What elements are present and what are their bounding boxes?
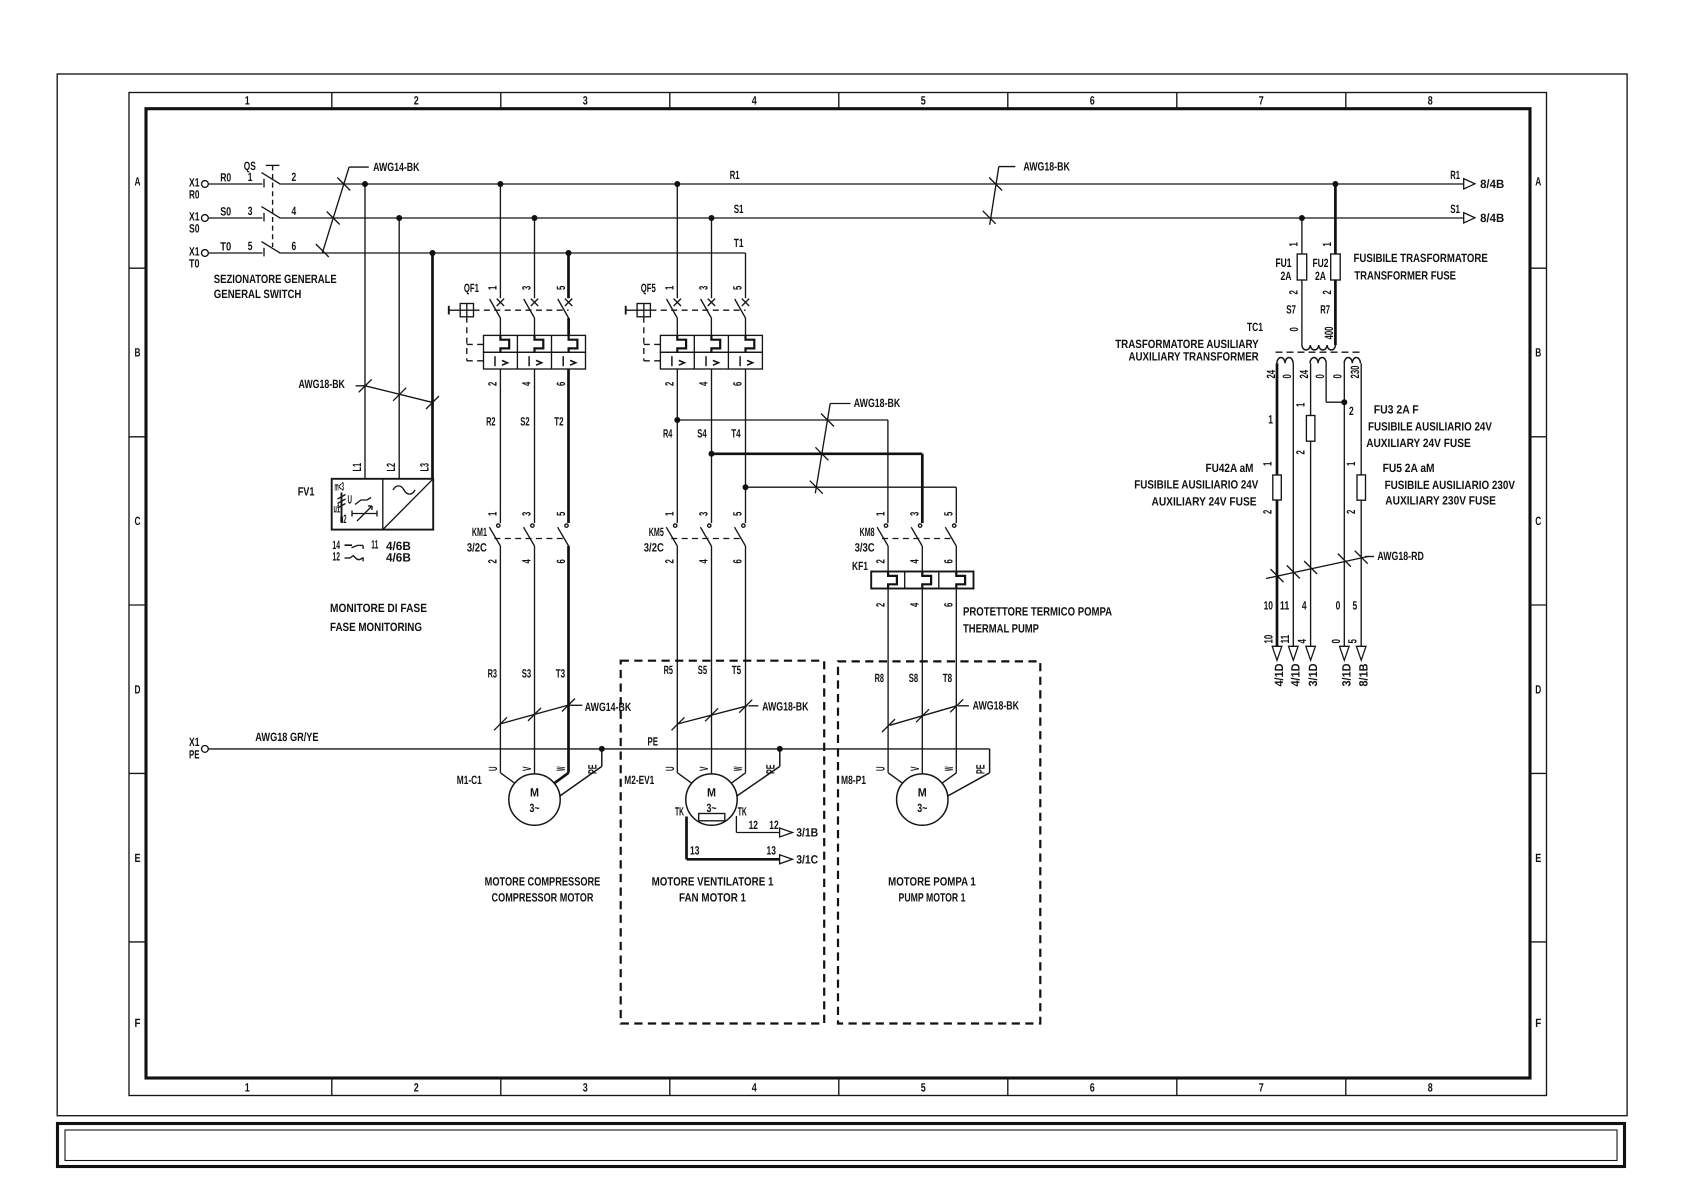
svg-text:4: 4 bbox=[520, 559, 534, 564]
svg-text:W: W bbox=[731, 766, 745, 771]
svg-text:E: E bbox=[135, 851, 141, 865]
column tick dividers bbox=[331, 93, 333, 109]
svg-text:3: 3 bbox=[583, 94, 588, 108]
svg-text:AWG18-BK: AWG18-BK bbox=[854, 396, 901, 410]
svg-text:THERMAL PUMP: THERMAL PUMP bbox=[963, 622, 1039, 636]
svg-text:R4: R4 bbox=[663, 427, 673, 441]
svg-text:QF5: QF5 bbox=[641, 281, 656, 295]
svg-text:AWG18-BK: AWG18-BK bbox=[762, 700, 809, 714]
svg-text:8/4B: 8/4B bbox=[1480, 177, 1504, 191]
QS linkage bar bbox=[266, 164, 280, 166]
svg-text:FAN MOTOR 1: FAN MOTOR 1 bbox=[679, 891, 746, 905]
wire 24V-2 (4) through FU3 bbox=[1310, 363, 1312, 415]
svg-text:2A: 2A bbox=[1315, 269, 1326, 283]
node L3 tap bbox=[430, 250, 436, 256]
svg-text:T3: T3 bbox=[556, 667, 566, 681]
svg-text:3~: 3~ bbox=[917, 801, 927, 815]
svg-text:B: B bbox=[135, 346, 141, 360]
svg-text:D: D bbox=[1535, 682, 1541, 696]
svg-text:S5: S5 bbox=[698, 663, 708, 677]
thermal element bbox=[746, 335, 755, 352]
svg-text:1: 1 bbox=[1261, 461, 1275, 466]
svg-text:2: 2 bbox=[292, 170, 297, 184]
svg-text:2: 2 bbox=[1349, 404, 1354, 418]
svg-text:S0: S0 bbox=[220, 204, 231, 218]
svg-text:L3: L3 bbox=[418, 463, 432, 472]
svg-text:12: 12 bbox=[332, 550, 340, 564]
svg-text:8: 8 bbox=[1428, 94, 1433, 108]
wire S1 to FU1 bbox=[1301, 218, 1303, 254]
node PE M1 bbox=[599, 746, 605, 752]
KM8 contact 3/4 bbox=[918, 524, 921, 527]
svg-text:F: F bbox=[1535, 1016, 1541, 1030]
wire bus R1 bbox=[279, 183, 1463, 185]
svg-text:AWG18-BK: AWG18-BK bbox=[973, 698, 1020, 712]
wire 0-1 (11) bbox=[1292, 363, 1294, 646]
terminal X1 R0 bbox=[202, 181, 209, 188]
svg-text:T1: T1 bbox=[734, 236, 744, 250]
svg-text:AWG18 GR/YE: AWG18 GR/YE bbox=[255, 730, 318, 744]
svg-text:1: 1 bbox=[663, 285, 677, 290]
KM5 contact 5/6 bbox=[742, 524, 745, 527]
svg-text:R1: R1 bbox=[1450, 168, 1460, 182]
node S4 branch bbox=[709, 451, 715, 457]
svg-text:V: V bbox=[697, 767, 711, 772]
thermal element bbox=[500, 335, 509, 352]
svg-text:8: 8 bbox=[1428, 1081, 1433, 1095]
svg-text:A: A bbox=[135, 174, 141, 188]
svg-text:4: 4 bbox=[752, 94, 757, 108]
svg-text:M8-P1: M8-P1 bbox=[841, 773, 866, 787]
svg-text:4: 4 bbox=[697, 559, 711, 564]
svg-text:PUMP MOTOR 1: PUMP MOTOR 1 bbox=[899, 891, 966, 905]
wire S3 bbox=[534, 546, 536, 774]
svg-text:4: 4 bbox=[908, 602, 922, 607]
svg-text:PE: PE bbox=[973, 765, 987, 775]
svg-text:S3: S3 bbox=[522, 667, 532, 681]
wire PE bus bbox=[208, 748, 989, 750]
svg-text:SEZIONATORE GENERALE: SEZIONATORE GENERALE bbox=[214, 272, 337, 286]
svg-text:V: V bbox=[908, 767, 922, 772]
KM1 contact 3/4 bbox=[531, 524, 534, 527]
PE connection bbox=[989, 749, 991, 773]
svg-text:0: 0 bbox=[1329, 639, 1343, 644]
svg-text:3~: 3~ bbox=[530, 801, 540, 815]
wire S5 bbox=[711, 546, 713, 774]
enclosure fan motor dashed box bbox=[621, 661, 825, 1024]
svg-text:5: 5 bbox=[1353, 599, 1358, 613]
svg-text:T8: T8 bbox=[943, 671, 953, 685]
KM8 contact 5/6 bbox=[953, 524, 956, 527]
svg-text:FU2: FU2 bbox=[1313, 256, 1329, 270]
svg-text:V: V bbox=[520, 767, 534, 772]
magnetic element bbox=[494, 356, 496, 366]
wire T3 bold bbox=[567, 546, 570, 773]
svg-text:FU5 2A aM: FU5 2A aM bbox=[1383, 461, 1435, 475]
cable AWG18-BK pump bbox=[890, 706, 957, 726]
svg-text:U: U bbox=[663, 767, 677, 772]
svg-text:2: 2 bbox=[1294, 450, 1308, 455]
svg-text:2: 2 bbox=[486, 381, 500, 386]
wires KM8 to KF1 bbox=[887, 546, 889, 572]
svg-text:6: 6 bbox=[292, 239, 297, 253]
thermal element bbox=[569, 335, 578, 352]
svg-text:3/1D: 3/1D bbox=[1340, 663, 1354, 686]
svg-text:8/1B: 8/1B bbox=[1356, 663, 1370, 686]
svg-text:FU3 2A F: FU3 2A F bbox=[1374, 402, 1419, 416]
svg-text:4: 4 bbox=[1302, 599, 1307, 613]
node L1 tap bbox=[362, 181, 368, 187]
svg-text:2: 2 bbox=[486, 559, 500, 564]
svg-text:1: 1 bbox=[486, 511, 500, 516]
wire 12 to 3/1B bbox=[735, 816, 737, 833]
fuse FU4 bbox=[1273, 475, 1282, 500]
fuse FU3 bbox=[1306, 416, 1315, 442]
svg-text:1: 1 bbox=[1268, 412, 1273, 426]
svg-text:FU42A aM: FU42A aM bbox=[1206, 461, 1254, 475]
svg-text:E: E bbox=[1535, 851, 1541, 865]
svg-text:TK: TK bbox=[675, 805, 684, 819]
svg-text:6: 6 bbox=[731, 381, 745, 386]
svg-text:6: 6 bbox=[942, 559, 956, 564]
motor M1-C1 bbox=[509, 774, 560, 825]
svg-text:A: A bbox=[1535, 174, 1541, 188]
svg-text:1: 1 bbox=[663, 511, 677, 516]
svg-text:m<3: m<3 bbox=[335, 480, 345, 494]
magnetic element bbox=[671, 356, 673, 366]
svg-text:5: 5 bbox=[731, 285, 745, 290]
svg-text:W: W bbox=[942, 766, 956, 771]
svg-text:5: 5 bbox=[921, 1081, 926, 1095]
wire S4 bold bbox=[711, 369, 713, 454]
linkage dashed bbox=[650, 309, 745, 311]
svg-text:C: C bbox=[135, 514, 141, 528]
svg-text:10: 10 bbox=[1262, 634, 1276, 643]
svg-text:L2: L2 bbox=[384, 463, 398, 472]
svg-text:2: 2 bbox=[873, 559, 887, 564]
thermal element bbox=[677, 335, 686, 352]
svg-text:PROTETTORE TERMICO POMPA: PROTETTORE TERMICO POMPA bbox=[963, 605, 1112, 619]
wire S1 to QF5 bbox=[711, 218, 713, 298]
svg-text:FASE MONITORING: FASE MONITORING bbox=[330, 620, 422, 634]
svg-text:2: 2 bbox=[414, 1081, 419, 1095]
svg-text:4: 4 bbox=[697, 381, 711, 386]
svg-text:TRANSFORMER FUSE: TRANSFORMER FUSE bbox=[1354, 269, 1456, 283]
reference grid frame bbox=[129, 93, 1547, 1096]
svg-text:4: 4 bbox=[752, 1081, 757, 1095]
core dashed bbox=[1276, 351, 1363, 353]
svg-text:6: 6 bbox=[554, 559, 568, 564]
KM1 contact 1/2 bbox=[497, 524, 500, 527]
fuse FU2 bbox=[1331, 254, 1341, 280]
svg-text:U: U bbox=[348, 493, 353, 507]
svg-text:T2: T2 bbox=[554, 415, 564, 429]
svg-text:13: 13 bbox=[767, 844, 777, 858]
svg-text:7: 7 bbox=[1259, 1081, 1264, 1095]
svg-text:R8: R8 bbox=[875, 671, 885, 685]
wire T4 bbox=[745, 369, 747, 523]
svg-text:400: 400 bbox=[1322, 326, 1336, 339]
svg-text:KM8: KM8 bbox=[860, 525, 875, 539]
svg-text:3: 3 bbox=[248, 204, 253, 218]
thick drawing border bbox=[146, 109, 1530, 1078]
svg-text:5: 5 bbox=[248, 239, 253, 253]
wire R1 to QF5 bbox=[676, 184, 678, 298]
terminal X1 T0 bbox=[202, 250, 209, 257]
switch QS pole 3-4 contact bbox=[263, 213, 265, 222]
svg-text:S0: S0 bbox=[189, 221, 200, 235]
svg-text:6: 6 bbox=[942, 602, 956, 607]
PE connection bbox=[601, 749, 603, 767]
svg-text:M2-EV1: M2-EV1 bbox=[624, 773, 654, 787]
svg-text:2: 2 bbox=[663, 381, 677, 386]
wires KF1 to pump motor bbox=[887, 589, 889, 773]
svg-text:R5: R5 bbox=[664, 663, 674, 677]
arrow to 3/1D bbox=[1340, 646, 1350, 660]
thermal element bbox=[922, 572, 931, 589]
svg-text:2: 2 bbox=[1287, 290, 1301, 295]
wire 0 joined (0) bbox=[1343, 363, 1345, 646]
svg-text:3/1D: 3/1D bbox=[1306, 663, 1320, 686]
row tick dividers bbox=[129, 267, 146, 269]
svg-text:3/2C: 3/2C bbox=[644, 541, 664, 555]
wire R3 bbox=[499, 546, 501, 773]
diagonal bbox=[383, 479, 433, 530]
svg-text:1: 1 bbox=[1287, 242, 1301, 247]
QS linkage dashed bbox=[272, 165, 274, 247]
thermal element bbox=[711, 335, 720, 352]
svg-text:1: 1 bbox=[486, 285, 500, 290]
svg-text:AUXILIARY 24V FUSE: AUXILIARY 24V FUSE bbox=[1152, 494, 1257, 508]
svg-text:2: 2 bbox=[873, 602, 887, 607]
svg-text:S8: S8 bbox=[909, 671, 919, 685]
svg-text:3/1B: 3/1B bbox=[796, 826, 818, 840]
svg-text:M: M bbox=[530, 786, 539, 800]
svg-text:24: 24 bbox=[1297, 370, 1311, 379]
svg-text:TK: TK bbox=[738, 805, 747, 819]
wire S2 bbox=[534, 369, 536, 523]
svg-text:S1: S1 bbox=[734, 202, 744, 216]
svg-text:TC1: TC1 bbox=[1247, 320, 1263, 334]
wire R5 bbox=[676, 546, 678, 773]
QF1 operator square bbox=[460, 304, 473, 317]
cable AWG14-BK at QS output bbox=[322, 167, 349, 253]
secondary winding 1 bbox=[1277, 357, 1293, 363]
motor M2-EV1 bbox=[686, 774, 737, 825]
svg-text:12: 12 bbox=[769, 818, 779, 832]
svg-text:6: 6 bbox=[731, 559, 745, 564]
terminal X1 S0 bbox=[202, 215, 209, 222]
svg-text:2A: 2A bbox=[1281, 269, 1292, 283]
svg-text:D: D bbox=[135, 682, 141, 696]
svg-text:1: 1 bbox=[245, 1081, 250, 1095]
svg-text:5: 5 bbox=[554, 511, 568, 516]
svg-text:COMPRESSOR MOTOR: COMPRESSOR MOTOR bbox=[492, 891, 594, 905]
svg-text:AWG18-RD: AWG18-RD bbox=[1377, 549, 1424, 563]
svg-text:0: 0 bbox=[1287, 327, 1301, 332]
svg-text:3/2C: 3/2C bbox=[467, 541, 487, 555]
svg-text:3: 3 bbox=[520, 511, 534, 516]
svg-text:0: 0 bbox=[1280, 374, 1294, 379]
svg-text:13: 13 bbox=[690, 844, 700, 858]
wire 13 to 3/1C bold bbox=[685, 817, 688, 860]
linkage dashed bbox=[494, 538, 566, 540]
svg-text:FUSIBILE AUSILIARIO 230V: FUSIBILE AUSILIARIO 230V bbox=[1385, 478, 1515, 492]
wire 0-2 to tap bbox=[1325, 363, 1327, 402]
cable AWG18-BK on R1/S1 right bbox=[990, 167, 999, 225]
svg-text:5: 5 bbox=[921, 94, 926, 108]
svg-text:S7: S7 bbox=[1286, 303, 1296, 317]
svg-text:2: 2 bbox=[663, 559, 677, 564]
svg-text:M: M bbox=[707, 786, 716, 800]
svg-text:M: M bbox=[918, 786, 927, 800]
cable AWG18-BK fan bbox=[677, 706, 748, 724]
wire R4 bbox=[676, 369, 678, 523]
svg-text:S2: S2 bbox=[520, 415, 530, 429]
svg-text:AWG18-BK: AWG18-BK bbox=[1023, 159, 1070, 173]
cable AWG14-BK compressor bbox=[499, 705, 570, 725]
svg-text:PE: PE bbox=[764, 765, 778, 775]
KM5 contact 3/4 bbox=[708, 524, 711, 527]
AC sine symbol bbox=[393, 486, 415, 494]
node T4 branch bbox=[743, 484, 749, 490]
svg-text:5: 5 bbox=[942, 511, 956, 516]
node PE M2 bbox=[777, 746, 783, 752]
svg-text:4/1D: 4/1D bbox=[1289, 663, 1303, 686]
svg-text:MONITORE DI FASE: MONITORE DI FASE bbox=[330, 601, 427, 615]
svg-text:3: 3 bbox=[583, 1081, 588, 1095]
wire L1 bbox=[364, 184, 366, 479]
wire T1 to QF1 bold bbox=[567, 253, 570, 298]
primary winding bbox=[1302, 345, 1336, 350]
svg-text:W: W bbox=[554, 766, 568, 771]
svg-text:PE: PE bbox=[189, 748, 200, 762]
svg-text:R2: R2 bbox=[486, 415, 496, 429]
svg-text:4: 4 bbox=[907, 559, 921, 564]
svg-text:T0: T0 bbox=[189, 256, 200, 270]
thermistor TK M2 bbox=[699, 814, 725, 821]
svg-text:0: 0 bbox=[1336, 599, 1341, 613]
magnetic element bbox=[705, 356, 707, 366]
wire L2 bbox=[398, 218, 400, 479]
svg-text:3: 3 bbox=[907, 511, 921, 516]
svg-text:KM5: KM5 bbox=[649, 525, 664, 539]
wire bus T1 bbox=[279, 252, 745, 254]
wire T5 bbox=[745, 546, 747, 773]
node 0V tap bbox=[1341, 399, 1347, 405]
svg-text:4/1D: 4/1D bbox=[1272, 663, 1286, 686]
svg-text:S4: S4 bbox=[697, 427, 707, 441]
svg-text:0: 0 bbox=[1313, 374, 1327, 379]
KM1 contact 5/6 bbox=[565, 524, 568, 527]
svg-text:GENERAL SWITCH: GENERAL SWITCH bbox=[214, 287, 302, 301]
svg-text:AUXILIARY 230V FUSE: AUXILIARY 230V FUSE bbox=[1385, 493, 1496, 507]
linkage dashed bbox=[474, 309, 569, 311]
svg-text:8/4B: 8/4B bbox=[1480, 211, 1504, 225]
svg-text:C: C bbox=[1535, 514, 1541, 528]
linkage dashed bbox=[882, 538, 954, 540]
svg-text:T0: T0 bbox=[220, 239, 231, 253]
svg-text:11: 11 bbox=[1280, 599, 1290, 613]
svg-text:FUSIBILE AUSILIARIO 24V: FUSIBILE AUSILIARIO 24V bbox=[1368, 420, 1492, 434]
wire S1 to QF1 bbox=[534, 218, 536, 298]
wire R2 bbox=[499, 369, 501, 523]
off-page arrow R1 8/4B bbox=[1464, 179, 1475, 189]
svg-text:AUXILIARY 24V FUSE: AUXILIARY 24V FUSE bbox=[1366, 436, 1471, 450]
svg-text:1: 1 bbox=[1344, 461, 1358, 466]
svg-text:3: 3 bbox=[697, 285, 711, 290]
svg-text:5: 5 bbox=[554, 285, 568, 290]
svg-text:2: 2 bbox=[1320, 290, 1334, 295]
svg-text:AWG14-BK: AWG14-BK bbox=[373, 160, 420, 174]
wire 230V (5) through FU5 bbox=[1360, 363, 1362, 475]
svg-text:KM1: KM1 bbox=[472, 525, 487, 539]
svg-text:4: 4 bbox=[1295, 639, 1309, 644]
motor phase entries U/V/W bbox=[500, 773, 514, 783]
svg-text:FU1: FU1 bbox=[1276, 256, 1292, 270]
svg-text:3: 3 bbox=[520, 285, 534, 290]
svg-text:6: 6 bbox=[1090, 1081, 1095, 1095]
svg-text:FUSIBILE AUSILIARIO 24V: FUSIBILE AUSILIARIO 24V bbox=[1134, 478, 1258, 492]
svg-text:5: 5 bbox=[731, 511, 745, 516]
QF5 thermal/magnetic box bbox=[660, 335, 762, 352]
svg-text:1: 1 bbox=[1294, 402, 1308, 407]
wire S0 to switch bbox=[208, 217, 262, 219]
svg-text:5: 5 bbox=[1346, 639, 1360, 644]
secondary winding 2 bbox=[1310, 357, 1326, 363]
svg-text:R7: R7 bbox=[1320, 303, 1330, 317]
switch QS pole 5-6 contact bbox=[263, 248, 265, 257]
svg-text:PE: PE bbox=[586, 765, 600, 775]
QF5 operator square bbox=[637, 304, 650, 317]
svg-text:PE: PE bbox=[648, 735, 659, 749]
svg-text:6: 6 bbox=[1090, 94, 1095, 108]
arrow to 4/1D bbox=[1289, 646, 1299, 660]
svg-text:S1: S1 bbox=[1450, 202, 1460, 216]
thermal element bbox=[888, 572, 897, 589]
svg-text:U: U bbox=[874, 767, 888, 772]
fuse FU1 bbox=[1297, 254, 1307, 280]
svg-text:u2: u2 bbox=[340, 512, 347, 526]
QF1 thermal/magnetic box bbox=[484, 335, 586, 352]
svg-text:QS: QS bbox=[244, 159, 256, 173]
svg-text:7: 7 bbox=[1259, 94, 1264, 108]
svg-text:FV1: FV1 bbox=[298, 485, 315, 499]
svg-text:T5: T5 bbox=[732, 663, 742, 677]
svg-text:R0: R0 bbox=[189, 187, 200, 201]
svg-text:AWG18-BK: AWG18-BK bbox=[299, 377, 346, 391]
svg-text:11: 11 bbox=[1278, 634, 1292, 643]
svg-text:4: 4 bbox=[520, 381, 534, 386]
svg-text:1: 1 bbox=[873, 511, 887, 516]
svg-text:0: 0 bbox=[1331, 374, 1345, 379]
cable AWG18-BK on L1-L3 bbox=[365, 386, 433, 403]
phase monitor FV1 bbox=[332, 479, 434, 530]
svg-text:F: F bbox=[135, 1016, 141, 1030]
svg-text:R1: R1 bbox=[730, 168, 740, 182]
enclosure pump motor dashed box bbox=[838, 661, 1040, 1023]
fuse FU5 bbox=[1357, 475, 1366, 500]
svg-text:MOTORE POMPA 1: MOTORE POMPA 1 bbox=[888, 875, 976, 889]
wire L3 bold bbox=[431, 253, 434, 479]
magnetic element bbox=[739, 356, 741, 366]
magnetic element bbox=[562, 356, 564, 366]
motor phase entries U/V/W bbox=[677, 773, 691, 783]
svg-text:M1-C1: M1-C1 bbox=[457, 773, 482, 787]
svg-text:MOTORE COMPRESSORE: MOTORE COMPRESSORE bbox=[485, 875, 601, 889]
svg-text:AUXILIARY TRANSFORMER: AUXILIARY TRANSFORMER bbox=[1129, 350, 1259, 364]
svg-text:3/1C: 3/1C bbox=[796, 852, 818, 866]
